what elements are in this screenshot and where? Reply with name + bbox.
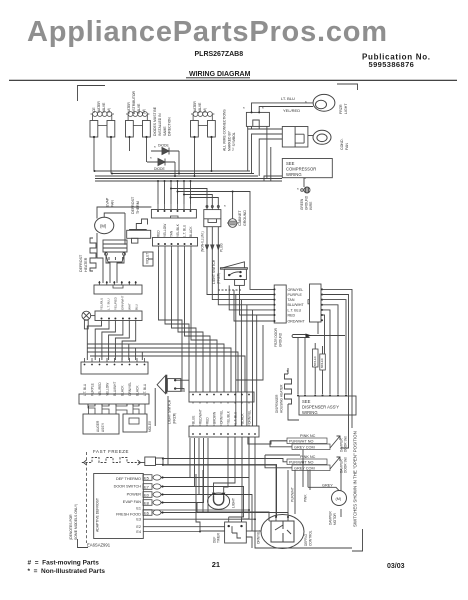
connector D lower bar xyxy=(95,311,142,321)
svg-text:AUGER: AUGER xyxy=(96,420,100,432)
svg-text:E1: E1 xyxy=(136,507,141,511)
water distributor valve body right xyxy=(143,121,151,138)
svg-text:DOOR SWITCH: DOOR SWITCH xyxy=(114,485,142,489)
svg-text:ORN/YEL: ORN/YEL xyxy=(288,288,304,292)
wire labels between G and H xyxy=(192,409,252,424)
dispenser harness left pin dots xyxy=(274,288,276,322)
defrost control pin dots xyxy=(275,516,289,518)
svg-text:DEFROST: DEFROST xyxy=(131,196,135,214)
dispenser harness right strip notch xyxy=(308,300,310,304)
svg-text:ORN/YEL: ORN/YEL xyxy=(257,530,261,544)
wire riser to compressor box 2 xyxy=(260,147,282,181)
label damper door switch 2 xyxy=(340,457,348,473)
molex tag box 2 xyxy=(320,354,326,370)
wire timer box to defrost control xyxy=(246,530,261,532)
frzr door ground connector xyxy=(292,335,345,338)
svg-text:YEL/BLU: YEL/BLU xyxy=(100,298,104,310)
svg-text:# = Fast-moving Parts: # = Fast-moving Parts xyxy=(28,560,100,567)
damper door switch 2 row PUR/WHT NO xyxy=(287,459,327,465)
light switch lower contact dots xyxy=(174,379,176,390)
damper door switch 2 row GREY COM xyxy=(292,465,330,471)
wire evap fan bottom leads xyxy=(97,233,103,283)
wire LT BLU to freezer light xyxy=(252,103,314,113)
svg-text:*: * xyxy=(154,145,156,150)
wire bundle line 4 xyxy=(95,178,265,180)
svg-text:GREY COM: GREY COM xyxy=(294,446,315,450)
wire molex1 to dispenser box xyxy=(288,338,323,421)
svg-text:GREY COM: GREY COM xyxy=(294,467,315,471)
compressor motor xyxy=(313,130,331,144)
svg-text:BLUE: BLUE xyxy=(192,416,196,424)
connector D lower pin dots xyxy=(101,318,137,320)
svg-text:E4: E4 xyxy=(136,530,141,534)
svg-text:MOTOR: MOTOR xyxy=(333,512,337,525)
title underline xyxy=(186,77,250,79)
wire labels below connector E xyxy=(83,382,147,396)
wire heater drop xyxy=(288,404,299,420)
svg-text:L.T. BLU: L.T. BLU xyxy=(288,308,302,312)
wire adc left drop xyxy=(246,537,252,548)
label light switch upper xyxy=(212,259,221,284)
wire drop to connector B pin 1 xyxy=(157,181,159,204)
defrost timer pin dots xyxy=(228,525,243,527)
wire door ground drop 2 xyxy=(304,338,306,395)
ice water valve body right xyxy=(107,121,115,138)
border corner top-right xyxy=(337,84,358,90)
light switch freezer upper xyxy=(218,262,247,290)
label green ground wire xyxy=(300,195,313,210)
damper door switch 1 row GREY COM xyxy=(292,444,330,450)
svg-text:RED: RED xyxy=(288,313,296,317)
svg-text:FRZR DOOR: FRZR DOOR xyxy=(274,327,278,347)
wire bundle line 3 xyxy=(95,175,258,177)
wire evap fan leads xyxy=(97,207,151,245)
label non-illuminated xyxy=(201,231,224,252)
svg-text:RED/WHT: RED/WHT xyxy=(199,409,203,424)
dispenser wire labels xyxy=(288,288,306,324)
svg-text:LIGHT SWITCH: LIGHT SWITCH xyxy=(168,399,172,424)
water valve link line xyxy=(198,125,207,127)
connector B strip xyxy=(151,210,196,219)
svg-text:FRESH FOOD: FRESH FOOD xyxy=(116,513,141,517)
svg-text:(M): (M) xyxy=(107,108,111,113)
see compressor wiring text xyxy=(286,161,316,177)
svg-text:GROUND: GROUND xyxy=(305,195,309,210)
light switch lower contact box xyxy=(167,379,180,392)
wire adc terminal runs to defrost timer xyxy=(161,478,288,532)
svg-text:*: * xyxy=(150,156,152,161)
wire elbow dispenser 3 xyxy=(322,300,346,394)
see dispenser wiring text xyxy=(302,399,339,415)
wire riser to compressor box 1 xyxy=(266,129,268,179)
dispenser harness right strip xyxy=(310,284,322,322)
damper door switch 1 contact arm xyxy=(330,436,340,448)
light lead arrows xyxy=(212,493,226,496)
wire light switch to dispenser column rows xyxy=(229,285,274,310)
water distributor valve body left xyxy=(126,121,134,138)
wire G to H pin links xyxy=(193,402,249,426)
wire valve1 left lead down xyxy=(94,129,282,204)
label water valve xyxy=(193,101,207,113)
svg-text:TAN: TAN xyxy=(170,230,174,237)
svg-text:DISPENSER ASS'Y: DISPENSER ASS'Y xyxy=(302,405,339,410)
svg-text:* = Non-Illustrated Parts: * = Non-Illustrated Parts xyxy=(28,568,106,575)
svg-text:WATER: WATER xyxy=(97,101,101,113)
wire YEL RED to freezer light xyxy=(259,107,313,113)
svg-text:YEL/RED: YEL/RED xyxy=(114,296,118,310)
label evap fan xyxy=(106,197,115,207)
label light switch lower xyxy=(168,399,177,424)
svg-text:*: * xyxy=(305,100,307,105)
wire valve2 left lead down xyxy=(129,137,131,151)
svg-text:SEE: SEE xyxy=(286,161,295,166)
svg-text:WIRE: WIRE xyxy=(309,202,313,210)
wire elbow dispenser 7 xyxy=(317,322,319,334)
heater terminal right xyxy=(123,253,126,256)
svg-text:GREEN: GREEN xyxy=(300,198,304,210)
svg-text:DEFROST: DEFROST xyxy=(79,254,83,272)
damper door switch 2 contact arm xyxy=(330,457,340,469)
svg-text:PLUG: PLUG xyxy=(220,243,224,252)
connector C bottom pin stubs xyxy=(159,246,192,250)
svg-text:MOLEX: MOLEX xyxy=(313,356,317,366)
connector G pin dots xyxy=(192,394,250,396)
wire elbow dispenser 6 xyxy=(322,315,325,354)
svg-text:*: * xyxy=(262,106,264,111)
asterisk marks xyxy=(150,100,307,209)
adc terminal E8 xyxy=(143,500,161,506)
wire fast freeze to damper switches upper xyxy=(163,459,287,462)
label ice water valve xyxy=(92,101,111,113)
wire plug junction dots xyxy=(161,476,163,513)
svg-text:*: * xyxy=(297,187,299,192)
connector B pin dots xyxy=(157,210,192,212)
fast freeze switch xyxy=(82,458,141,463)
freezer light bulb xyxy=(313,94,335,111)
svg-text:MARKED BY: MARKED BY xyxy=(228,130,232,151)
svg-text:TIMER: TIMER xyxy=(217,532,221,543)
svg-text:TAN: TAN xyxy=(288,298,295,302)
dispenser harness left strip xyxy=(274,285,286,323)
svg-text:DISTRIBUTOR: DISTRIBUTOR xyxy=(132,91,136,114)
svg-text:ORN/YEL: ORN/YEL xyxy=(220,410,224,424)
wire label column bottom drop xyxy=(236,325,263,380)
svg-text:AppliancePartsPros.com: AppliancePartsPros.com xyxy=(27,16,388,48)
label denotes some models only xyxy=(69,504,78,540)
svg-text:DIRECTION: DIRECTION xyxy=(168,117,172,136)
ice maker inner tab xyxy=(129,418,139,424)
evap fan motor xyxy=(95,217,114,233)
svg-text:COMPRESSOR: COMPRESSOR xyxy=(286,167,316,172)
svg-text:FAN: FAN xyxy=(111,200,115,207)
svg-text:MOLEX: MOLEX xyxy=(320,358,324,368)
dispenser housing heater resistor xyxy=(285,374,292,404)
svg-text:EVAP FAN: EVAP FAN xyxy=(123,500,141,504)
svg-text:PUR/WHT: PUR/WHT xyxy=(291,487,295,502)
label defrost control xyxy=(257,530,313,546)
wire drop to connector B pin 4 xyxy=(177,181,179,204)
defrost timer pins xyxy=(229,517,242,522)
diode D1 xyxy=(151,148,179,155)
svg-text:L.T. BLU: L.T. BLU xyxy=(107,298,111,310)
wire heater top stub xyxy=(287,368,289,374)
water distributor valve link line xyxy=(133,125,142,127)
svg-text:E5: E5 xyxy=(144,476,150,481)
svg-text:ASS'Y: ASS'Y xyxy=(101,422,105,432)
wire grey to damper motor xyxy=(308,470,339,491)
svg-text:(DENOTES FOR: (DENOTES FOR xyxy=(69,514,73,540)
wire riser to relay 2 xyxy=(252,134,283,174)
svg-text:YEL/BLK: YEL/BLK xyxy=(227,410,231,424)
defrost thermostat xyxy=(127,219,151,243)
label frzr light xyxy=(339,103,348,114)
adaptive defrost control box xyxy=(94,474,144,539)
wire switch row links xyxy=(265,441,300,468)
wire drop to connector B pin 3 xyxy=(170,181,172,204)
svg-text:THERM: THERM xyxy=(136,201,140,214)
wire bundle line 2 xyxy=(112,173,254,175)
svg-text:EVAP: EVAP xyxy=(106,197,110,207)
svg-text:FAN: FAN xyxy=(345,143,349,150)
wire molex2 to dispenser box xyxy=(322,370,324,394)
svg-text:RED: RED xyxy=(157,230,161,237)
connector F bottom pins xyxy=(88,404,139,406)
junction dots top bundle xyxy=(93,136,213,182)
svg-text:ICE: ICE xyxy=(92,107,96,113)
svg-text:EA6SAZ991: EA6SAZ991 xyxy=(87,543,111,548)
svg-text:(M): (M) xyxy=(203,108,207,113)
wire valve1 right lead down xyxy=(110,137,112,174)
connector plug 4-pin xyxy=(246,112,269,129)
svg-text:(FRZR): (FRZR) xyxy=(173,413,177,424)
svg-text:YELLOW: YELLOW xyxy=(163,224,167,237)
label switches shown open position xyxy=(353,431,358,527)
wire valve3 left lead down xyxy=(194,137,196,176)
svg-text:5995386876: 5995386876 xyxy=(369,60,415,69)
svg-text:INSTALLED IN: INSTALLED IN xyxy=(158,113,162,136)
wire riser to relay 3 xyxy=(259,139,282,176)
svg-text:VALVE: VALVE xyxy=(198,102,202,113)
wire harness H fan to adc terminals xyxy=(161,438,208,513)
light switch freezer lower xyxy=(157,375,166,394)
connector E pins xyxy=(85,358,145,362)
connector E pin dots xyxy=(84,364,146,366)
svg-text:VIOLET: VIOLET xyxy=(146,253,150,264)
svg-text:BROWN: BROWN xyxy=(213,411,217,424)
svg-text:HOUSING HEATER: HOUSING HEATER xyxy=(280,384,284,413)
solenoid ice water valve coil xyxy=(91,112,115,121)
header rule xyxy=(9,79,457,81)
adc terminal E5 xyxy=(143,475,161,481)
svg-text:CONTROL: CONTROL xyxy=(309,530,313,546)
label defrost heater xyxy=(79,254,88,272)
svg-text:YEL/RED: YEL/RED xyxy=(283,108,300,113)
compressor relay overload xyxy=(282,127,308,148)
connector E strip xyxy=(81,362,148,374)
svg-text:WHT: WHT xyxy=(128,303,132,310)
ice maker box xyxy=(123,414,147,432)
border corner bottom-left xyxy=(78,539,89,548)
defrost timer box xyxy=(225,522,247,543)
plug arrows xyxy=(205,227,220,250)
diode D2 xyxy=(147,159,175,166)
svg-text:BLACK: BLACK xyxy=(189,226,193,237)
water valve body right xyxy=(208,121,216,138)
wire molex arrows to dispenser column rows xyxy=(207,250,274,295)
svg-text:BLACK: BLACK xyxy=(241,413,245,424)
adc row labels xyxy=(114,477,142,534)
wire H pin right link xyxy=(248,437,287,444)
svg-text:PINK: PINK xyxy=(304,494,308,502)
connector plug pin dots xyxy=(251,111,261,113)
ground symbol cabinet xyxy=(227,219,239,228)
svg-text:MOLEX: MOLEX xyxy=(148,420,152,432)
wire damper switch drops xyxy=(288,450,341,521)
svg-text:YEL/BLK: YEL/BLK xyxy=(176,223,180,237)
svg-text:SEE: SEE xyxy=(302,399,311,404)
ground symbol compressor xyxy=(301,178,310,193)
defrost control pins xyxy=(269,517,276,521)
label cabinet ground xyxy=(238,210,247,226)
svg-text:SWITCHES SHOWN IN THE "OPEN" P: SWITCHES SHOWN IN THE "OPEN" POSITION xyxy=(353,431,358,527)
svg-text:DOOR SW.: DOOR SW. xyxy=(344,436,348,452)
wire F jogs to boxes xyxy=(88,404,145,414)
connector H pin dots xyxy=(192,433,256,435)
adc terminal E6 xyxy=(143,510,161,516)
svg-text:PLRS267ZAB8: PLRS267ZAB8 xyxy=(195,51,244,58)
label frzr door ground xyxy=(274,327,283,347)
svg-text:BLU: BLU xyxy=(135,304,139,310)
svg-text:ORN/YEL: ORN/YEL xyxy=(248,410,252,424)
connector G strip xyxy=(189,392,254,402)
svg-text:PINK NC: PINK NC xyxy=(300,434,316,438)
solenoid water valve coil xyxy=(191,112,214,121)
wire diode D1 out xyxy=(178,151,180,174)
svg-text:VALVE: VALVE xyxy=(137,103,141,114)
connector molex block xyxy=(204,205,221,227)
label dispenser housing heater xyxy=(275,384,284,413)
wire valve2 right lead down xyxy=(146,137,148,162)
svg-text:WIRING DIAGRAM: WIRING DIAGRAM xyxy=(189,71,251,78)
connector F strip xyxy=(79,394,149,404)
wire valve3 right lead down xyxy=(211,137,213,171)
violet tag box xyxy=(143,252,153,266)
damper door switch 1 row PUR/WHT NO xyxy=(287,438,327,444)
svg-text:HEATER: HEATER xyxy=(84,257,88,272)
svg-text:L.T. BLU: L.T. BLU xyxy=(234,411,238,424)
svg-text:*: * xyxy=(243,106,245,111)
connector D upper pins xyxy=(99,281,135,288)
molex tag box 1 xyxy=(313,349,319,367)
note diodes direction xyxy=(153,106,172,136)
ice water valve link line xyxy=(98,125,107,127)
svg-text:DAMPER: DAMPER xyxy=(329,511,333,525)
see compressor wiring box xyxy=(282,159,332,178)
defrost heater resistor zigzag xyxy=(90,238,96,271)
svg-text:COND.: COND. xyxy=(340,138,344,150)
wire riser to relay 1 xyxy=(248,129,282,171)
label damper door switch 1 xyxy=(340,436,348,452)
svg-text:GROUND: GROUND xyxy=(243,210,247,226)
auger box pins xyxy=(0,0,1,1)
auger motor assembly box xyxy=(83,414,119,434)
svg-text:DIODES MUST BE: DIODES MUST BE xyxy=(153,106,157,136)
svg-text:PUR/WHT NO: PUR/WHT NO xyxy=(289,440,313,444)
svg-text:LIGHT: LIGHT xyxy=(232,498,236,508)
frzr door ground arrow xyxy=(306,334,312,338)
wire harness D to E xyxy=(87,321,135,361)
svg-text:L.T. BLU: L.T. BLU xyxy=(183,224,187,237)
svg-text:E3: E3 xyxy=(136,518,141,522)
note all wire connections marked xyxy=(223,109,237,151)
svg-text:SOME MODELS ONLY): SOME MODELS ONLY) xyxy=(74,504,78,540)
svg-text:(M): (M) xyxy=(336,497,342,501)
svg-text:DEF THERMO: DEF THERMO xyxy=(116,477,141,481)
adc terminal E7 xyxy=(143,484,161,490)
connector D upper pin dots xyxy=(98,282,136,284)
label water distributor valve xyxy=(127,91,146,114)
svg-text:E8: E8 xyxy=(144,501,150,506)
wire diode D2 out xyxy=(174,162,176,176)
svg-text:VALVE: VALVE xyxy=(102,102,106,113)
fast freeze tap dots xyxy=(162,457,164,466)
wire feeds to molex block xyxy=(171,189,274,290)
water valve body left xyxy=(191,121,199,138)
dispenser box pin dots xyxy=(297,395,347,397)
svg-text:POWER: POWER xyxy=(127,493,142,497)
damper motor xyxy=(332,491,347,506)
wire fast freeze heavy run xyxy=(163,465,276,517)
wire drop to connector B pin 5 xyxy=(183,181,185,204)
svg-text:*: * xyxy=(224,204,226,209)
freezer light lamp xyxy=(208,493,230,509)
svg-text:FAST FREEZE: FAST FREEZE xyxy=(93,449,129,454)
svg-text:WATER: WATER xyxy=(127,102,131,114)
heater terminal left xyxy=(105,253,108,256)
svg-text:DIODE: DIODE xyxy=(158,144,169,148)
svg-text:E7: E7 xyxy=(144,485,150,490)
connector C pin dots xyxy=(158,243,193,245)
svg-text:03/03: 03/03 xyxy=(387,563,405,570)
wire heater to D xyxy=(106,256,110,283)
svg-text:(M): (M) xyxy=(142,109,146,114)
svg-text:DOOR SW.: DOOR SW. xyxy=(344,457,348,473)
svg-text:SAME: SAME xyxy=(163,126,167,136)
border corner bottom-right bracket xyxy=(352,529,363,551)
svg-text:E2: E2 xyxy=(136,525,141,529)
light switch lower contact wires xyxy=(155,380,189,465)
svg-text:CABINET: CABINET xyxy=(238,210,242,226)
dispenser harness right pin dots xyxy=(321,288,323,321)
wire elbow dispenser 1 xyxy=(236,289,352,448)
label defrost therm xyxy=(131,196,140,214)
adc plain row stubs xyxy=(143,510,255,532)
svg-text:PUR/WHT NO: PUR/WHT NO xyxy=(289,461,313,465)
dashed some-models bracket xyxy=(86,452,88,543)
border corner top-left xyxy=(78,86,106,102)
wire elbow dispenser 5 xyxy=(322,310,330,394)
svg-text:GROUND: GROUND xyxy=(279,332,283,347)
wire labels below connector D xyxy=(100,296,139,310)
fast freeze jumper box xyxy=(141,457,164,466)
svg-text:WIRING: WIRING xyxy=(302,410,318,415)
svg-text:RED: RED xyxy=(206,417,210,424)
svg-text:WIRING: WIRING xyxy=(286,172,302,177)
solenoid water distributor valve coil xyxy=(126,112,149,121)
wire bundle line 1 xyxy=(95,170,251,172)
wire C pin drops descending to band xyxy=(97,233,274,392)
wire bundle line 5 xyxy=(95,180,270,182)
